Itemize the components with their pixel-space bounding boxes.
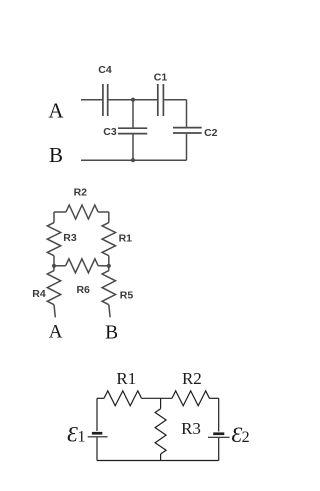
wire C4 to node xyxy=(109,99,158,101)
svg-text:A: A xyxy=(48,99,64,123)
svg-text:C4: C4 xyxy=(98,64,112,76)
svg-text:R1: R1 xyxy=(119,232,133,244)
svg-text:R3: R3 xyxy=(181,419,201,438)
resistor R2 (battery circuit) xyxy=(172,391,209,406)
wire left vertical lower xyxy=(96,437,98,460)
svg-text:B: B xyxy=(49,143,63,167)
capacitor C4 xyxy=(102,84,104,116)
wire R5 lead xyxy=(108,266,110,271)
svg-text:R4: R4 xyxy=(32,288,46,300)
svg-text:R6: R6 xyxy=(76,284,90,296)
node left (dot) xyxy=(52,264,56,268)
wire top-left segment (A rail into C4) xyxy=(81,99,102,101)
svg-text:C2: C2 xyxy=(204,127,218,139)
svg-text:B: B xyxy=(105,323,118,344)
wire right vertical lower xyxy=(186,134,188,160)
svg-text:C3: C3 xyxy=(103,126,117,138)
wire middle vertical tail xyxy=(160,454,162,461)
battery E1 negative plate (short thick) xyxy=(92,432,102,435)
svg-text:R1: R1 xyxy=(116,369,136,388)
wire R5 tail xyxy=(109,305,110,318)
resistor R3 xyxy=(47,223,60,256)
resistor R1 xyxy=(102,223,115,256)
resistor R1 (battery circuit) xyxy=(104,391,142,406)
node junction bottom (dot) xyxy=(131,158,135,162)
wire C1 to right corner xyxy=(164,99,186,101)
resistor R2 xyxy=(66,205,98,219)
battery E2 negative plate (short thick) xyxy=(213,432,224,435)
svg-text:R3: R3 xyxy=(63,232,77,244)
wire R2 to right corner xyxy=(209,397,218,399)
svg-text:C1: C1 xyxy=(154,72,168,84)
wire R4 lead xyxy=(53,266,55,271)
capacitor C2 xyxy=(173,127,202,129)
wire right to node xyxy=(108,256,110,266)
wire bottom rail xyxy=(97,460,219,462)
resistor R3 (battery circuit) xyxy=(155,409,166,454)
wire node leads R6 xyxy=(54,265,66,267)
svg-text:A: A xyxy=(49,321,63,342)
battery E2 positive plate (long thin) xyxy=(208,436,230,438)
node right (dot) xyxy=(107,264,111,268)
svg-text:R2: R2 xyxy=(182,369,202,388)
wire middle vertical lead xyxy=(160,398,162,408)
wire left vertical upper xyxy=(96,398,98,431)
wire right vertical lower xyxy=(218,438,220,461)
resistor R5 xyxy=(102,271,115,305)
svg-text:1: 1 xyxy=(78,429,86,446)
battery E1 positive plate (long thin) xyxy=(88,436,108,438)
capacitor C1 xyxy=(157,84,159,116)
svg-text:2: 2 xyxy=(242,429,250,446)
wire right vertical upper xyxy=(186,100,188,127)
resistor R4 xyxy=(47,271,60,305)
wire middle vertical lower xyxy=(132,134,134,160)
node junction top (dot) xyxy=(131,98,135,102)
wire top rail left lead xyxy=(97,397,104,399)
wire R4 tail xyxy=(54,305,55,318)
svg-text:Ɛ: Ɛ xyxy=(67,422,78,447)
wire top-right corner xyxy=(98,211,109,213)
wire bottom (B rail) xyxy=(81,159,187,161)
svg-text:R5: R5 xyxy=(120,289,134,301)
wire left to node xyxy=(53,256,55,266)
wire top-left corner xyxy=(54,211,66,213)
wire right vertical upper xyxy=(218,398,220,431)
resistor R6 xyxy=(66,259,99,273)
wire middle vertical upper xyxy=(132,100,134,128)
svg-text:R2: R2 xyxy=(74,186,88,198)
capacitor C3 xyxy=(118,127,147,129)
wire R1 to node to R2 xyxy=(142,397,173,399)
